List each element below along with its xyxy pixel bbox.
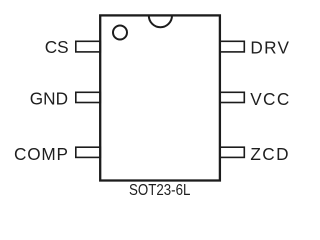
svg-text:ZCD: ZCD xyxy=(250,144,290,164)
IC body U1 (SOT23-6L package outline) xyxy=(100,15,220,180)
svg-text:CS: CS xyxy=(45,37,69,57)
svg-text:GND: GND xyxy=(30,89,68,109)
pin 1 indicator dot xyxy=(113,26,127,40)
pin 3 COMP pad xyxy=(76,147,101,157)
pin 4 ZCD pad xyxy=(220,147,245,157)
pin 1 CS pad xyxy=(76,41,101,52)
svg-text:DRV: DRV xyxy=(250,37,290,57)
pin 5 VCC pad xyxy=(220,92,245,102)
pin 2 GND pad xyxy=(76,92,101,102)
svg-text:SOT23-6L: SOT23-6L xyxy=(129,182,190,199)
svg-text:COMP: COMP xyxy=(14,144,69,164)
pin 6 DRV pad xyxy=(220,41,245,52)
orientation notch xyxy=(149,16,172,28)
svg-text:VCC: VCC xyxy=(250,89,291,109)
